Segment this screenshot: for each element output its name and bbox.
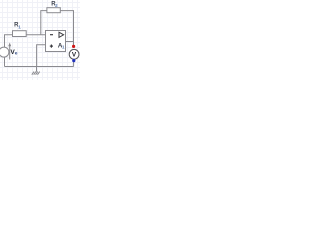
grid background — [0, 0, 80, 80]
ground — [32, 67, 40, 75]
voltage source Ve circle — [0, 47, 9, 57]
wire feedback vertical from node to top rail — [41, 11, 47, 35]
wire source bottom — [4, 57, 6, 67]
svg-text:V: V — [72, 52, 77, 59]
op-amp triangle symbol — [59, 32, 64, 37]
wire bottom rail — [5, 66, 74, 68]
wire op-amp output — [66, 41, 74, 43]
svg-text:1: 1 — [18, 24, 21, 29]
resistor R1 — [13, 31, 27, 37]
voltage source arrow — [8, 43, 11, 60]
wire voltmeter bottom — [73, 62, 75, 67]
resistor R2 — [47, 8, 60, 13]
op-amp plus input pin — [50, 45, 53, 48]
op-amp A1 body — [46, 31, 66, 52]
voltmeter red probe node — [72, 45, 75, 48]
wire plus input branch — [37, 45, 46, 67]
voltmeter V circle — [69, 49, 79, 59]
wire source top to R1 — [5, 35, 13, 48]
op-amp minus input pin — [50, 34, 53, 36]
wire top rail R2 to right vertical down to output node — [60, 11, 73, 46]
svg-text:e: e — [15, 51, 18, 56]
voltmeter blue probe node — [72, 59, 75, 62]
wire R1 to op-amp minus input — [26, 34, 45, 36]
